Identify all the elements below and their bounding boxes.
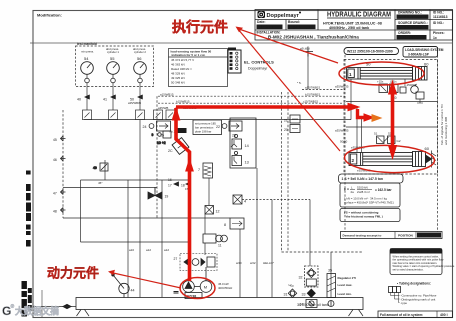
svg-text:3-600A/B-LSP: 3-600A/B-LSP xyxy=(408,53,430,57)
svg-text:49 325 kN: 49 325 kN xyxy=(171,76,185,80)
svg-text:41: 41 xyxy=(103,98,107,102)
valve group 53 under cyl1 xyxy=(379,84,418,93)
cylinder 2 xyxy=(349,153,413,166)
svg-text:HELLO°: HELLO° xyxy=(263,261,275,265)
svg-text:17: 17 xyxy=(168,184,172,188)
svg-text:11116813: 11116813 xyxy=(433,15,448,19)
Doppelmayr logo xyxy=(258,11,302,19)
node W212 label plate xyxy=(344,48,399,55)
red ellipse around cylinder 1 xyxy=(339,62,424,85)
red leader wire to pump ellipse xyxy=(111,273,181,289)
svg-text:a35/WB: a35/WB xyxy=(158,106,168,110)
svg-text:45: 45 xyxy=(53,138,57,142)
right margin dashed xyxy=(437,47,439,232)
svg-text:B-M02 JISHUASHAN , Tianzhushan: B-M02 JISHUASHAN , Tianzhushan/China xyxy=(268,35,359,40)
svg-text:M: M xyxy=(204,285,207,290)
svg-text:1x: 1x xyxy=(433,36,437,40)
svg-text:56: 56 xyxy=(137,56,142,61)
svg-text:a12: a12 xyxy=(164,248,169,252)
svg-text:5200 kN: 5200 kN xyxy=(357,186,368,190)
valve 12 xyxy=(205,206,214,215)
svg-text:7: 7 xyxy=(198,168,200,172)
shutoff 41 xyxy=(103,95,116,102)
shutoff 50 xyxy=(128,95,143,105)
suction shutoff valve xyxy=(33,304,76,309)
red flow path: step wire xyxy=(358,109,367,118)
svg-text:+15x: +15x xyxy=(377,80,384,84)
svg-text:14: 14 xyxy=(245,144,249,148)
red flow arrow up top riser xyxy=(172,107,181,121)
svg-text:Rated 348 kN =: Rated 348 kN = xyxy=(171,67,192,71)
svg-text:55: 55 xyxy=(110,56,115,61)
svg-text:(13)x: (13)x xyxy=(390,80,397,84)
svg-text:40: 40 xyxy=(77,98,81,102)
check valves 45 46 xyxy=(61,136,66,161)
pump 37 38 group xyxy=(174,254,218,299)
svg-text:= 162.5 bar: = 162.5 bar xyxy=(375,188,392,192)
svg-text:the frictional runway FML ): the frictional runway FML ) xyxy=(346,215,383,219)
watermark xyxy=(2,303,59,318)
valve 26 tag xyxy=(177,128,187,133)
red ellipse around cylinder 2 xyxy=(344,144,435,174)
svg-text:a15/WB15: a15/WB15 xyxy=(160,92,174,96)
svg-text:surface = 450.8x0² S3P-VT+P45.: surface = 450.8x0² S3P-VT+P45.7M21 xyxy=(344,201,394,205)
breather 34 xyxy=(306,300,317,308)
svg-text:* 5.: * 5. xyxy=(297,81,302,85)
svg-text:50/50: 50/50 xyxy=(340,140,348,144)
svg-text:46 363 kN: 46 363 kN xyxy=(171,63,185,67)
svg-text:400 l: 400 l xyxy=(440,313,448,317)
svg-text:48 329 kN: 48 329 kN xyxy=(171,72,185,76)
red annotation arrowhead to power label xyxy=(108,270,115,276)
valves 20 21 xyxy=(290,115,300,133)
formula box S xyxy=(340,209,400,222)
valve 25 xyxy=(157,121,171,138)
svg-text:2a: 2a xyxy=(351,190,355,194)
valve 4 xyxy=(233,195,242,204)
svg-text:4: 4 xyxy=(244,200,246,204)
red flow arrow right header xyxy=(348,103,361,112)
filter 31 xyxy=(288,289,296,297)
svg-text:c15/7WB15: c15/7WB15 xyxy=(303,99,318,103)
svg-text:min press.: min press. xyxy=(81,50,94,54)
check valve 48 xyxy=(61,208,66,213)
svg-text:54: 54 xyxy=(84,56,89,61)
svg-text:295060/100-16/5000: 295060/100-16/5000 xyxy=(398,26,426,30)
red ellipse around pump xyxy=(180,278,215,299)
svg-text:400V/50Hz: 400V/50Hz xyxy=(218,286,233,290)
valve 22 xyxy=(216,124,227,129)
svg-text:19: 19 xyxy=(165,195,169,199)
svg-text:大数据文摘: 大数据文摘 xyxy=(15,306,59,318)
svg-text:Demand testing excerpt to: Demand testing excerpt to xyxy=(343,234,382,238)
svg-text:a12: a12 xyxy=(146,248,151,252)
svg-text:24: 24 xyxy=(143,125,147,129)
svg-text:动力元件: 动力元件 xyxy=(47,266,99,281)
svg-text:indication for 5 or 1 col.: indication for 5 or 1 col. xyxy=(172,53,206,57)
svg-text:Doppelmayr: Doppelmayr xyxy=(267,13,300,19)
svg-text:ORDER:: ORDER: xyxy=(398,31,411,35)
svg-text:12: 12 xyxy=(216,210,220,214)
svg-text:Date:: Date: xyxy=(257,20,265,24)
svg-text:50 348 kN: 50 348 kN xyxy=(171,81,185,85)
svg-text:13: 13 xyxy=(245,161,249,165)
load-sensing system plate xyxy=(403,47,444,58)
svg-text:a35/WB35: a35/WB35 xyxy=(335,129,349,133)
svg-text:G2: G2 xyxy=(397,139,401,143)
svg-text:46: 46 xyxy=(53,158,57,162)
svg-text:33: 33 xyxy=(302,293,306,297)
svg-text:a35/WB35: a35/WB35 xyxy=(128,101,142,105)
svg-text:8: 8 xyxy=(224,223,226,227)
svg-text:9: 9 xyxy=(152,133,154,137)
svg-text:WAA0002411: WAA0002411 xyxy=(399,36,419,40)
svg-text:a15/7WB15: a15/7WB15 xyxy=(305,86,320,90)
svg-text:cylinder 1: cylinder 1 xyxy=(107,50,119,54)
svg-text:ID NO.:: ID NO.: xyxy=(433,21,444,25)
valve block 13 14 xyxy=(230,118,256,168)
title block xyxy=(255,10,453,41)
svg-text:Bound:: Bound: xyxy=(288,20,300,24)
svg-text:Level min.: Level min. xyxy=(338,292,352,296)
svg-text:POSITION: POSITION xyxy=(398,234,414,238)
svg-text:执行元件: 执行元件 xyxy=(172,19,228,35)
node a5/b5 crosshair xyxy=(303,47,313,57)
terminal strip WB xyxy=(228,48,241,74)
svg-text:Full amount of oil in system:: Full amount of oil in system: xyxy=(380,313,423,317)
svg-text:F =: F = xyxy=(344,188,349,192)
filter 32 group xyxy=(305,266,319,287)
svg-text:• Tubing designations:: • Tubing designations: xyxy=(397,282,431,286)
svg-text:2C: 2C xyxy=(168,149,173,153)
cylinder assembly dashed box xyxy=(344,60,438,175)
svg-text:11: 11 xyxy=(218,244,222,248)
right margin rotated note xyxy=(440,104,448,145)
cooler 11 xyxy=(203,234,227,243)
svg-text:test manifold: test manifold xyxy=(77,42,97,46)
svg-text:b15/WB15: b15/WB15 xyxy=(176,99,190,103)
svg-text:47: 47 xyxy=(53,192,57,196)
red annotation arrowhead to actuator label xyxy=(236,27,244,33)
dashed signal bus a15 xyxy=(302,89,345,91)
svg-text:51: 51 xyxy=(374,132,378,136)
svg-text:45 374 kN 5,77 V: 45 374 kN 5,77 V xyxy=(171,58,194,62)
svg-text:49: 49 xyxy=(93,166,97,170)
svg-text:HYDRAULIC DIAGRAM: HYDRAULIC DIAGRAM xyxy=(327,12,391,19)
svg-text:400/50Hz - 250l oil tank: 400/50Hz - 250l oil tank xyxy=(329,26,370,30)
check valves 51 52 xyxy=(377,136,396,144)
svg-text:Modification:: Modification: xyxy=(37,13,62,18)
formula box E5 xyxy=(339,174,404,183)
svg-text:1 S + 5x0 0-kN = 147.5 ton: 1 S + 5x0 0-kN = 147.5 ton xyxy=(342,177,383,181)
shutoff 40 xyxy=(77,95,90,102)
svg-text:b15/7WB15: b15/7WB15 xyxy=(305,92,320,96)
svg-text:w30: w30 xyxy=(236,261,242,265)
svg-text:2x28.3 m²: 2x28.3 m² xyxy=(357,190,370,194)
svg-text:DRAWING NO.:: DRAWING NO.: xyxy=(398,11,422,15)
formula box F xyxy=(340,183,400,207)
svg-text:and monitoring 1 WB: and monitoring 1 WB xyxy=(444,117,448,145)
svg-text:60: 60 xyxy=(424,62,429,67)
svg-text:®: ® xyxy=(11,303,15,310)
svg-text:45°: 45° xyxy=(98,181,103,185)
svg-text:w32: w32 xyxy=(250,261,256,265)
svg-text:a35/WB35: a35/WB35 xyxy=(335,85,349,89)
cylinder 2 anchor block xyxy=(413,152,432,167)
red leader wire to cylinder 1 ellipse xyxy=(238,29,339,64)
oil tank 30 xyxy=(76,298,363,317)
svg-text:44: 44 xyxy=(131,289,135,293)
orange flow arrow right step xyxy=(372,114,383,122)
thermometer 36 xyxy=(328,301,334,307)
svg-text:ID NO.:: ID NO.: xyxy=(433,11,444,15)
svg-text:SOURCE DRAWG.:: SOURCE DRAWG.: xyxy=(398,21,428,25)
svg-text:295060/100-16/5000: 295060/100-16/5000 xyxy=(398,15,426,19)
measuring row manifold xyxy=(83,110,352,120)
cylinder 1 anchor block xyxy=(413,67,428,81)
svg-text:*40µ: *40µ xyxy=(288,284,294,288)
valve 26 tilted xyxy=(172,138,189,155)
valves 17 18 xyxy=(174,182,191,186)
svg-text:20: 20 xyxy=(284,128,288,132)
red flow arrow right step xyxy=(364,113,376,121)
check 33 xyxy=(307,289,316,298)
accumulator 7 xyxy=(198,163,213,178)
svg-text:32: 32 xyxy=(299,276,303,280)
cylinder 1 xyxy=(347,68,413,80)
valve 23 xyxy=(229,121,242,138)
svg-text:Level max.: Level max. xyxy=(338,283,353,287)
svg-text:plate 198 bar: plate 198 bar xyxy=(195,130,211,134)
red leader wire to cylinder 2 ellipse xyxy=(238,29,341,152)
wire node drop xyxy=(307,52,309,90)
valve 19 xyxy=(148,187,162,199)
svg-text:Regulator #?l: Regulator #?l xyxy=(338,276,357,280)
test manifold dashed box xyxy=(76,46,154,87)
gray bus wires xyxy=(63,120,331,298)
wire LS dashed xyxy=(242,199,310,201)
svg-text:2: 2 xyxy=(352,158,355,163)
svg-text:1: 1 xyxy=(349,72,352,77)
wire cylinder1 drop xyxy=(346,79,437,152)
red flow path: cylinder feed wire xyxy=(391,93,395,148)
relief note box xyxy=(193,120,222,135)
valve 49 xyxy=(93,163,108,171)
svg-text:EL. CONTROLS: EL. CONTROLS xyxy=(244,60,274,65)
red flow path: pump riser xyxy=(176,108,190,281)
svg-text:27: 27 xyxy=(174,257,178,261)
svg-text:cylinder 2: cylinder 2 xyxy=(134,50,146,54)
title block texts xyxy=(257,11,448,40)
dashed signal bus c15 xyxy=(158,102,345,104)
gauge 56 xyxy=(133,47,146,83)
red flow arrow up to cylinder 1 xyxy=(388,80,397,95)
demand testing bar xyxy=(341,232,443,239)
svg-text:35: 35 xyxy=(328,269,332,273)
dashed signal bus b15 xyxy=(158,95,345,97)
red flow path: header wire xyxy=(176,105,352,109)
svg-text:34: 34 xyxy=(300,303,304,307)
svg-text:* Start of press.switch when o: * Start of press.switch when opening xyxy=(392,250,438,254)
svg-text:periodic testing of: periodic testing of xyxy=(418,234,441,238)
check valve 47 xyxy=(61,190,66,195)
left margin rotated text xyxy=(22,171,32,317)
level gauge 35 xyxy=(327,274,336,298)
wire gauge drops xyxy=(87,83,140,110)
svg-text:31: 31 xyxy=(284,293,288,297)
svg-text:Doppelmayr: Doppelmayr xyxy=(248,67,268,71)
svg-text:a10: a10 xyxy=(129,248,134,252)
svg-text:Hagspiel Ingo: Hagspiel Ingo xyxy=(289,25,309,29)
svg-text:48: 48 xyxy=(53,210,57,214)
svg-text:10 +2: 10 +2 xyxy=(157,141,166,145)
gauge 54 xyxy=(81,50,94,83)
pressure note box xyxy=(390,249,455,275)
svg-text:-type: -type xyxy=(401,301,408,305)
svg-text:Pieces:: Pieces: xyxy=(433,31,445,35)
valve 9 10 pair xyxy=(152,131,172,145)
valve 8 xyxy=(230,218,244,229)
red flow arrow down to cylinder 2 xyxy=(388,145,397,160)
indication table xyxy=(169,49,228,87)
svg-text:LOAD-SENSING SYSTEM: LOAD-SENSING SYSTEM xyxy=(405,48,444,52)
svg-text:HYDR.TENS.UNIT 15.0kN/LUC -08: HYDR.TENS.UNIT 15.0kN/LUC -08 xyxy=(323,22,382,26)
svg-text:21: 21 xyxy=(284,119,288,123)
svg-text:2011-05-24: 2011-05-24 xyxy=(258,25,275,29)
oil amount bar xyxy=(378,311,453,318)
valve 24 xyxy=(143,124,154,129)
svg-text:22: 22 xyxy=(216,125,220,129)
valve 47b right xyxy=(416,92,424,103)
hand pump 44 xyxy=(112,274,130,298)
gauge 55 xyxy=(106,47,119,83)
wall hatch xyxy=(432,151,437,168)
svg-text:60: 60 xyxy=(425,146,430,151)
central dashed block xyxy=(63,55,363,252)
red flow arrow up mid riser xyxy=(185,158,194,172)
svg-text:set to rated characteristics.: set to rated characteristics. xyxy=(393,267,424,271)
svg-text:W212 295/100-16-5000-2300: W212 295/100-16-5000-2300 xyxy=(347,50,393,54)
